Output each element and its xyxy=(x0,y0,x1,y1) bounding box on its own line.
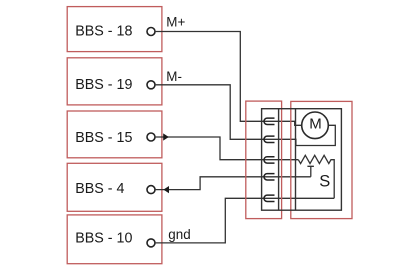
wire from BBS-15 to pin 3 and resistor left lead xyxy=(156,137,299,160)
wire M- from BBS-19 to pin 2 and motor right terminal loop xyxy=(156,85,336,146)
connector housing red outline (plug side) xyxy=(246,101,282,219)
wiper tap T-bar xyxy=(307,166,314,177)
connector block BBS-10 xyxy=(67,215,162,264)
svg-text:M: M xyxy=(309,115,322,132)
svg-text:gnd: gnd xyxy=(168,227,190,242)
socket contact pin 1 xyxy=(264,118,275,124)
svg-text:BBS - 15: BBS - 15 xyxy=(75,130,132,146)
connector block BBS-18 xyxy=(67,7,162,52)
socket contact pin 5 xyxy=(264,195,275,201)
connector block BBS-15 xyxy=(67,111,162,158)
motor assembly inner wall xyxy=(295,109,297,211)
connector block BBS-4 xyxy=(67,163,162,211)
terminal circle BBS-15 xyxy=(147,133,155,141)
motor assembly red outline (receptacle side) xyxy=(291,101,352,218)
connector body black outline xyxy=(262,109,342,211)
terminal circle BBS-19 xyxy=(147,81,155,89)
svg-text:M+: M+ xyxy=(166,15,185,30)
connector block BBS-19 xyxy=(67,58,162,105)
connector strip divider xyxy=(278,109,280,211)
svg-text:BBS - 10: BBS - 10 xyxy=(75,231,132,247)
socket contact pin 3 xyxy=(264,157,274,163)
resistor S (speed sensor) zigzag xyxy=(298,155,334,198)
wire from BBS-4 to pin 4 and wiper tap xyxy=(156,177,311,190)
svg-text:BBS - 18: BBS - 18 xyxy=(75,24,132,40)
terminal circle BBS-18 xyxy=(147,28,155,36)
svg-text:M-: M- xyxy=(166,69,182,84)
wire gnd from BBS-10 to pin 5 and resistor bottom xyxy=(156,198,335,243)
terminal circle BBS-4 xyxy=(147,186,155,194)
wire M+ from BBS-18 to pin 1 and motor left terminal xyxy=(156,32,302,126)
motor M1 xyxy=(302,112,329,139)
socket contact pin 2 xyxy=(264,136,275,142)
arrowhead pointing left on BBS-4 wire xyxy=(163,186,169,193)
svg-text:BBS - 19: BBS - 19 xyxy=(75,77,132,93)
terminal circle BBS-10 xyxy=(147,239,155,247)
svg-text:S: S xyxy=(319,173,330,191)
arrowhead pointing right on BBS-15 wire xyxy=(163,133,169,140)
socket contact pin 4 xyxy=(264,174,275,180)
svg-text:BBS - 4: BBS - 4 xyxy=(75,181,124,197)
